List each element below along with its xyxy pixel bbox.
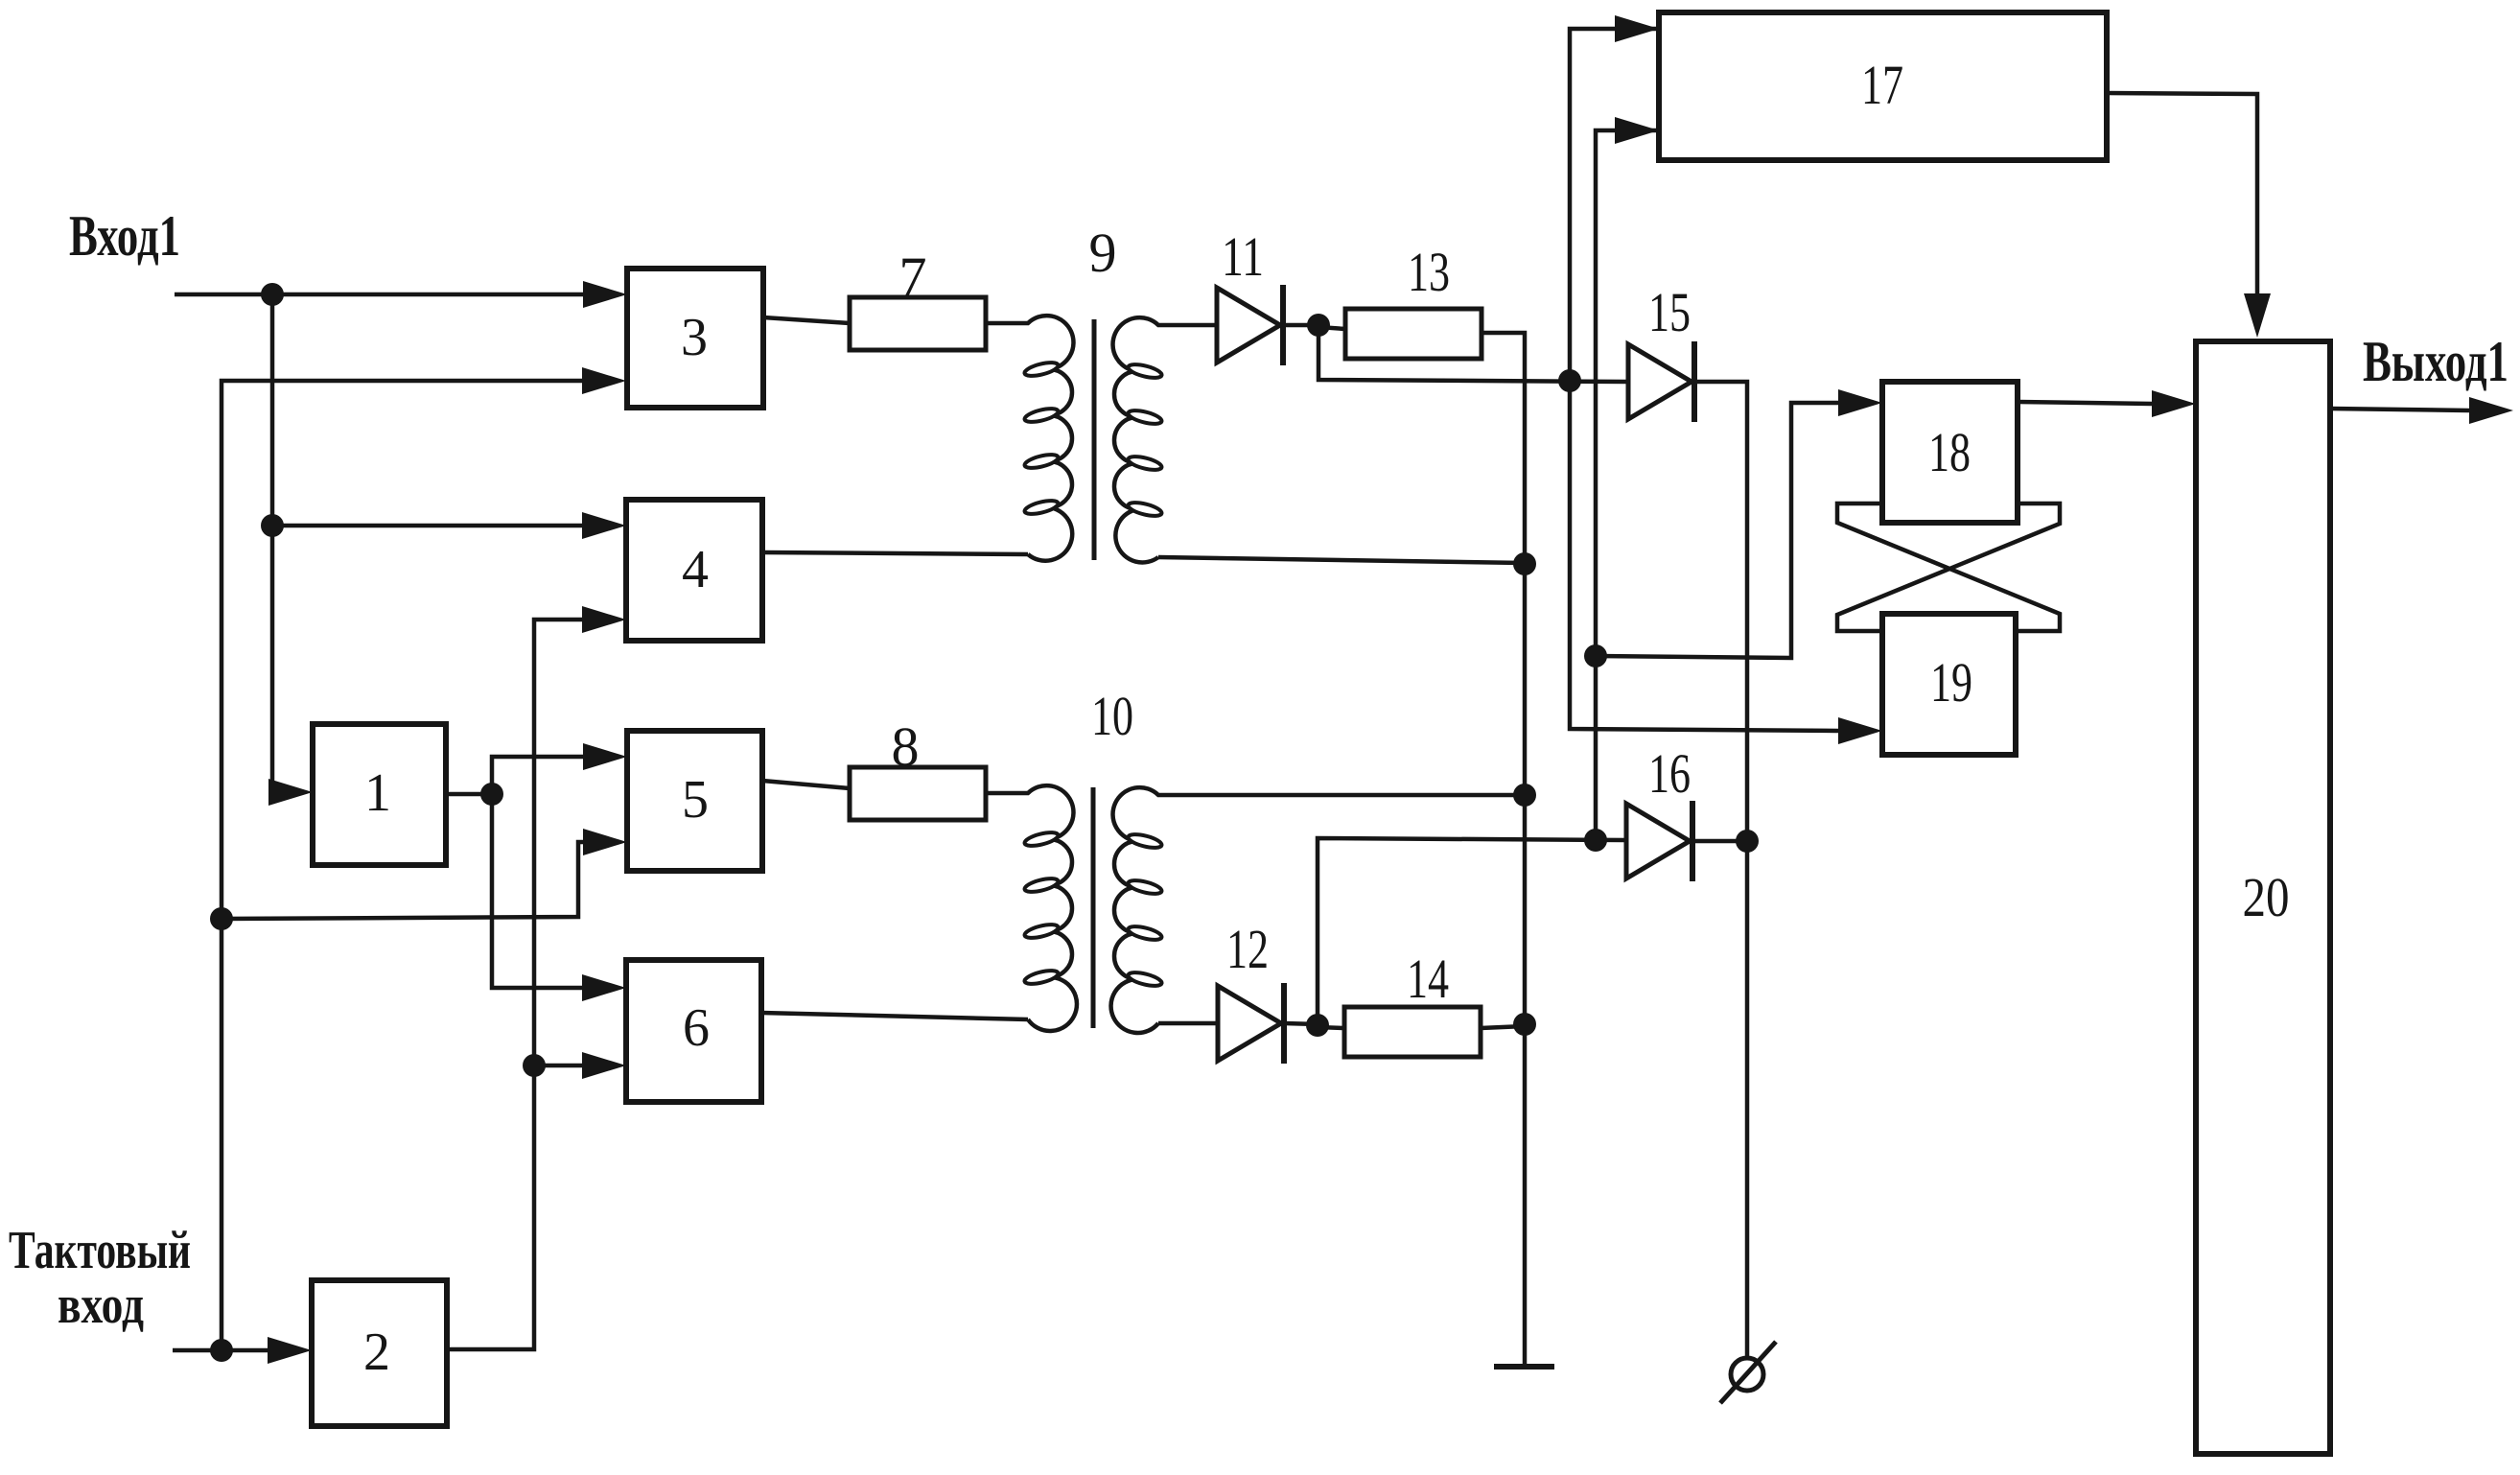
wire clock tap into block 5 input 2 xyxy=(222,842,583,919)
transformer T10 secondary winding xyxy=(1111,787,1525,1033)
transformer T10 primary winding xyxy=(986,785,1077,1031)
svg-text:10: 10 xyxy=(1091,685,1133,747)
diode D12 xyxy=(1218,986,1281,1061)
svg-text:1: 1 xyxy=(364,763,391,823)
node J T10 secondary top junction xyxy=(1513,784,1536,807)
node I T9 secondary bottom junction xyxy=(1513,552,1536,575)
wire block 6 output to transformer 10 primary bottom xyxy=(761,1013,1028,1019)
wire block 2 output bus to block 4 input 2 xyxy=(447,620,582,1349)
node E block 1 output junction xyxy=(480,783,503,806)
wire T10 secondary bottom to diode 12 xyxy=(1158,1021,1218,1026)
wire clock bus top corner into block 3 input 2 xyxy=(222,381,582,1350)
wire diode 15 output down to no-connect xyxy=(1692,382,1747,1358)
transformer T9 primary winding xyxy=(986,316,1073,561)
svg-text:Тактовый: Тактовый xyxy=(9,1221,191,1280)
svg-text:17: 17 xyxy=(1861,54,1903,116)
wire diode 12 junction up and across to diode 16 xyxy=(1318,838,1626,1025)
transformer T10 core xyxy=(1091,787,1096,1028)
node M junction feeding diode 16 xyxy=(1584,829,1607,852)
svg-text:6: 6 xyxy=(683,998,710,1058)
wire resistor 14 output to ground bus xyxy=(1481,1026,1525,1028)
node P tap to block 18 input xyxy=(1584,644,1607,667)
node B junction feeding block 4 input 1 xyxy=(261,514,284,537)
transformer T9 secondary winding xyxy=(1113,317,1217,562)
node A junction on Вход1 line xyxy=(261,283,284,306)
block 5 xyxy=(627,731,762,871)
svg-text:9: 9 xyxy=(1089,222,1117,284)
block 3 xyxy=(627,269,763,408)
wire block 17 output down into block 20 xyxy=(2107,93,2257,293)
svg-text:20: 20 xyxy=(2243,866,2290,928)
svg-text:11: 11 xyxy=(1222,225,1264,288)
wire into block 4 input 1 xyxy=(272,524,582,528)
block 19 xyxy=(1882,614,2016,755)
wire block 1 output xyxy=(446,792,492,797)
svg-text:7: 7 xyxy=(899,246,927,308)
wire T9 secondary bottom to ground bus xyxy=(1158,557,1525,563)
node F block 2 bus tap to block 6 input 2 xyxy=(523,1054,546,1077)
svg-text:вход: вход xyxy=(58,1276,144,1335)
block 1 xyxy=(313,724,446,865)
transformer T9 core xyxy=(1092,319,1097,560)
node H junction on line into diode 15 xyxy=(1558,369,1581,392)
wire block 20 output Выход1 xyxy=(2330,409,2469,410)
svg-text:2: 2 xyxy=(363,1323,390,1382)
svg-text:5: 5 xyxy=(682,770,709,830)
wire Вход1 bus down to blocks 4 and 1 xyxy=(270,294,275,792)
wire Тактовый вход input line into block 2 xyxy=(173,1348,268,1353)
svg-text:13: 13 xyxy=(1408,241,1450,303)
svg-text:Выход1: Выход1 xyxy=(2363,330,2508,393)
svg-text:3: 3 xyxy=(681,308,708,367)
wire bus into block 17 input 1 and down to block 19 xyxy=(1570,29,1838,731)
svg-text:14: 14 xyxy=(1407,948,1449,1010)
wire diode 11 junction down and across to diode 15 xyxy=(1318,325,1628,382)
block 18 xyxy=(1882,382,2018,523)
cross-coupling between blocks 18 and 19 xyxy=(1837,503,2060,631)
wire block 1 output to block 6 input 1 xyxy=(492,794,582,988)
block 2 xyxy=(312,1280,447,1426)
wire into block 1 input xyxy=(272,790,274,795)
wire into block 6 input 2 xyxy=(534,1064,582,1068)
node D clock input junction xyxy=(210,1339,233,1362)
svg-text:15: 15 xyxy=(1648,281,1691,343)
block 20 xyxy=(2196,341,2330,1454)
svg-text:Вход1: Вход1 xyxy=(69,204,180,268)
node K resistor 14 output junction xyxy=(1513,1013,1536,1036)
wire diode 11 cathode to junction xyxy=(1286,323,1318,328)
wire block 5 output to resistor 8 xyxy=(762,781,850,788)
diode D15 xyxy=(1628,344,1692,419)
resistor R14 xyxy=(1344,1007,1481,1057)
node G diode 11 cathode junction xyxy=(1307,314,1330,337)
wire resistor 13 output to ground bus xyxy=(1482,333,1525,1367)
diode D11 xyxy=(1217,288,1280,363)
svg-text:12: 12 xyxy=(1226,918,1269,980)
wire block 18 output into block 20 xyxy=(2018,402,2152,404)
wire diode 11 junction into resistor 13 xyxy=(1318,327,1345,329)
resistor R13 xyxy=(1345,309,1482,359)
wire block 1 output to block 5 input 1 xyxy=(492,757,583,794)
block 17 xyxy=(1659,12,2107,160)
block 6 xyxy=(626,960,761,1102)
svg-text:18: 18 xyxy=(1928,421,1971,483)
wire diode 12 junction into resistor 14 xyxy=(1318,1027,1344,1028)
svg-text:19: 19 xyxy=(1930,651,1972,714)
node C clock bus tap to block 5 input 2 xyxy=(210,907,233,930)
resistor R7 xyxy=(850,297,986,350)
wire bus into block 17 input 2 and down to diode 16 line xyxy=(1596,130,1657,840)
wire diode 16 output xyxy=(1691,839,1747,844)
ground xyxy=(1494,1364,1554,1370)
wire block 3 output to resistor 7 xyxy=(763,317,850,323)
node L diode 12 cathode junction xyxy=(1306,1014,1329,1037)
block 4 xyxy=(626,500,762,641)
wire block 4 output to transformer 9 primary bottom xyxy=(762,552,1028,554)
no-connect terminal xyxy=(1731,1358,1763,1391)
resistor R8 xyxy=(850,767,986,820)
node N diode 16 cathode junction xyxy=(1736,830,1759,853)
svg-text:4: 4 xyxy=(682,540,709,599)
diode D16 xyxy=(1626,804,1690,878)
svg-text:8: 8 xyxy=(892,715,920,778)
wire from tap to block 18 input xyxy=(1596,403,1838,658)
wire diode 12 cathode to junction xyxy=(1284,1023,1318,1024)
wire Вход1 input line into block 3 input 1 xyxy=(175,293,583,297)
svg-text:16: 16 xyxy=(1648,742,1691,805)
